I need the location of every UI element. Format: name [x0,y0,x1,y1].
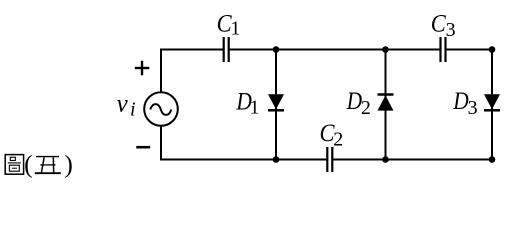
+ polarity mark [135,61,150,76]
wire D3 branch vertical (right edge) [491,50,493,160]
diode D2 [378,95,394,111]
label C2 [320,120,344,151]
node dot bottom D1 [273,156,280,163]
wire left vertical lower [160,125,162,161]
label D1 [236,88,260,118]
wire top: C3 to right corner [446,49,493,51]
wire top: C1 to C3 left plate [229,49,441,51]
label C1 [217,10,241,39]
source vi (AC) [144,92,178,126]
capacitor C1 [224,37,229,62]
node dot bottom right [489,156,496,163]
node dot top D2 [382,46,389,53]
svg-text:3: 3 [468,97,478,119]
wire top: source to C1 left plate [161,49,224,51]
label vi [117,91,136,121]
label D3 [452,88,477,119]
svg-text:D: D [346,88,362,115]
svg-text:C: C [431,10,446,37]
wire bottom: C2 to right corner [332,159,492,161]
svg-text:2: 2 [333,129,343,151]
wire D2 branch vertical [385,50,387,160]
wire D1 branch vertical [275,50,277,160]
svg-text:v: v [117,91,129,118]
capacitor C2 [327,147,332,172]
wire bottom: left corner to C2 [160,159,327,161]
svg-text:1: 1 [250,96,260,118]
label C3 [431,10,456,41]
svg-text:): ) [64,150,73,179]
svg-text:2: 2 [361,97,371,119]
svg-text:D: D [452,88,468,115]
diode D3 [484,94,500,110]
node dot top right [489,46,496,53]
node dot bottom D2 [382,156,389,163]
capacitor C3 [441,37,446,62]
svg-text:i: i [130,99,136,121]
diode D1 [268,94,284,110]
caption glyph 圖 [5,155,23,175]
label D2 [346,88,371,119]
svg-text:(: ( [24,150,32,179]
caption glyph 五 [35,157,61,174]
svg-text:3: 3 [446,19,456,41]
svg-text:1: 1 [230,17,240,39]
- polarity mark [136,146,150,149]
wire left vertical upper [160,49,162,94]
node dot top D1 [273,46,280,53]
